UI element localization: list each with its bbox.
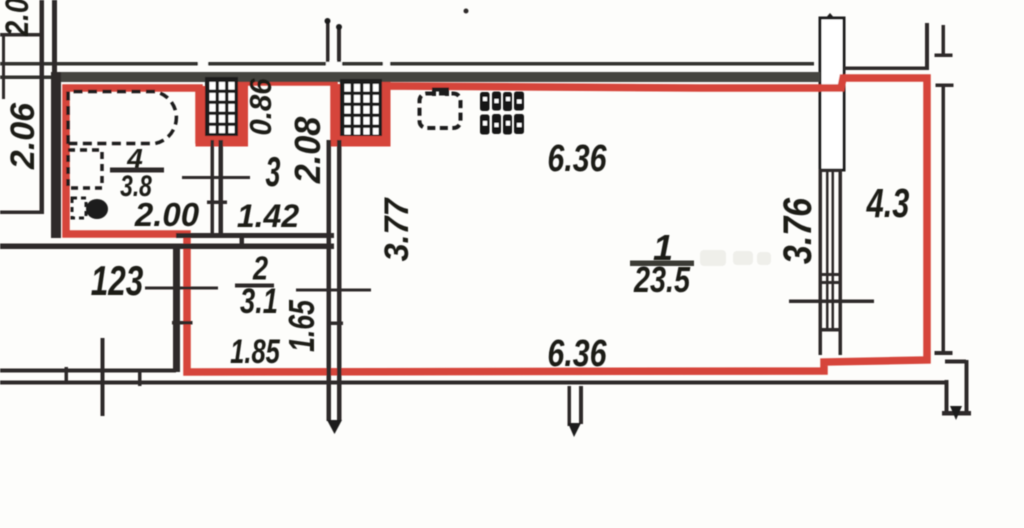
small dot top	[464, 9, 469, 14]
main wall tick 1.65 top	[327, 322, 343, 326]
window dim tick 3.76	[789, 300, 874, 304]
svg-text:23.5: 23.5	[633, 259, 691, 300]
faint scan smudges	[700, 250, 771, 266]
doorway arrow below bottom wall	[568, 386, 572, 426]
toilet	[72, 198, 86, 218]
room2 left wall	[173, 245, 180, 372]
bottom right step detail	[945, 380, 949, 413]
svg-text:1.42: 1.42	[237, 198, 299, 234]
neighbour wall line left	[0, 211, 44, 215]
bottom-left tick b	[138, 372, 142, 386]
room2 wall tick 1.65	[172, 321, 193, 325]
thin line gaps at wall crossings	[198, 61, 390, 67]
balcony pier column	[824, 13, 836, 20]
svg-text:3: 3	[266, 149, 281, 195]
svg-text:6.36: 6.36	[547, 333, 607, 375]
bathroom left wall	[51, 72, 61, 238]
kitchen stove	[480, 92, 524, 135]
svg-text:2.06: 2.06	[4, 102, 42, 170]
bottom-left tick a	[65, 367, 69, 384]
balcony window lines	[819, 169, 823, 355]
divider wall tick	[207, 201, 227, 205]
label room1 underline	[630, 261, 694, 267]
wall stub above top wall	[326, 21, 330, 62]
svg-text:3.77: 3.77	[378, 197, 416, 261]
svg-text:2.00: 2.00	[134, 196, 200, 233]
svg-text:6.36: 6.36	[547, 138, 607, 180]
left upper second thin line	[0, 76, 52, 80]
svg-text:1.65: 1.65	[281, 300, 322, 352]
top exterior thick wall	[52, 72, 820, 82]
right dimension line lower	[936, 84, 954, 88]
left wall line above top wall	[52, 0, 57, 72]
ventilation shaft V1	[196, 77, 249, 147]
bathtub	[68, 92, 176, 145]
door jamb tick corridor/room2	[240, 235, 245, 247]
leader dash room2-room1	[296, 289, 371, 292]
svg-text:3.76: 3.76	[774, 198, 819, 264]
ventilation shaft V2	[331, 79, 391, 147]
top right thin line	[844, 67, 929, 71]
svg-text:2.0: 2.0	[0, 0, 35, 37]
right dimension line upper	[942, 25, 946, 55]
main interior wall (double line)	[327, 140, 332, 421]
bottom wall long lower line	[0, 381, 947, 385]
leader line 123	[145, 287, 218, 290]
top right vertical	[925, 23, 929, 68]
corridor bottom wall upper line	[176, 233, 334, 238]
svg-text:3.1: 3.1	[240, 282, 278, 321]
left dimension line vertical	[40, 0, 45, 211]
bottom wall upper-left line	[0, 369, 176, 373]
svg-text:123: 123	[91, 257, 144, 305]
main wall bottom arrow	[327, 420, 342, 434]
washbasin	[68, 150, 102, 188]
apartment boundary red outline	[66, 78, 927, 372]
left tick top	[0, 33, 40, 37]
bathroom bottom wall line	[0, 244, 334, 250]
left small dim vertical	[2, 36, 5, 99]
bathroom / corridor divider wall	[211, 140, 215, 234]
kitchen sink	[420, 94, 461, 129]
svg-text:1.85: 1.85	[230, 334, 281, 371]
svg-text:0.86: 0.86	[244, 78, 278, 135]
label room2 underline	[235, 284, 274, 288]
label room4 underline	[110, 168, 164, 173]
svg-text:2.08: 2.08	[288, 116, 328, 184]
leader line room3	[182, 176, 250, 179]
svg-text:4.3: 4.3	[866, 180, 910, 226]
bottom-left cross line	[101, 338, 105, 416]
top exterior thin wall line	[0, 62, 814, 66]
